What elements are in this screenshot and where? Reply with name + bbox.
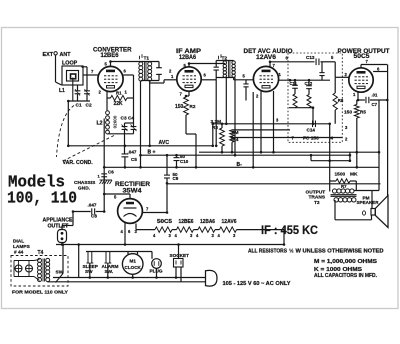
svg-text:1500: 1500	[335, 172, 346, 178]
svg-text:22K: 22K	[114, 101, 124, 107]
svg-text:C10: C10	[180, 159, 189, 164]
svg-text:C1: C1	[76, 102, 82, 108]
svg-text:12AV6: 12AV6	[256, 54, 277, 61]
svg-text:C7: C7	[372, 102, 378, 107]
svg-text:12BA6: 12BA6	[179, 54, 196, 61]
svg-text:150: 150	[344, 110, 352, 116]
svg-text:GND.: GND.	[78, 186, 90, 192]
svg-text:C14: C14	[307, 128, 316, 133]
svg-text:C13: C13	[306, 55, 315, 60]
svg-text:12BE6: 12BE6	[101, 52, 120, 59]
svg-text:FC 150: FC 150	[303, 136, 319, 142]
svg-text:150: 150	[175, 104, 184, 110]
svg-text:# 44: # 44	[14, 249, 24, 255]
svg-text:T1: T1	[144, 56, 150, 62]
svg-text:SPEAKER: SPEAKER	[357, 200, 380, 205]
svg-text:CHASSIS: CHASSIS	[74, 180, 96, 186]
svg-text:R2: R2	[190, 104, 196, 109]
svg-text:ALL RESISTORS: ALL RESISTORS	[248, 249, 287, 255]
svg-text:ALARM: ALARM	[102, 264, 119, 269]
svg-text:VAR. COND.: VAR. COND.	[63, 160, 94, 166]
svg-text:CLOCK: CLOCK	[125, 265, 142, 270]
svg-text:12BA6: 12BA6	[200, 219, 215, 225]
svg-text:.047: .047	[88, 203, 97, 208]
svg-text:M1: M1	[130, 259, 137, 264]
svg-text:TRANS: TRANS	[309, 195, 326, 201]
svg-text:.047: .047	[128, 150, 137, 155]
svg-text:LAMPS: LAMPS	[13, 244, 31, 250]
svg-text:SW.: SW.	[105, 269, 114, 274]
svg-text:½: ½	[289, 248, 294, 255]
svg-text:K = 1000 OHMS: K = 1000 OHMS	[314, 267, 363, 273]
svg-text:L2: L2	[97, 121, 103, 127]
svg-text:C8: C8	[91, 213, 97, 218]
svg-text:C5: C5	[131, 157, 137, 162]
svg-text:L1: L1	[59, 88, 65, 94]
svg-text:W UNLESS OTHERWISE NOTED: W UNLESS OTHERWISE NOTED	[296, 249, 384, 255]
svg-text:FOR MODEL 110 ONLY: FOR MODEL 110 ONLY	[12, 290, 69, 296]
svg-text:C6: C6	[108, 170, 114, 175]
svg-text:C9: C9	[173, 176, 179, 181]
svg-text:ALL CAPACITORS IN MFD.: ALL CAPACITORS IN MFD.	[314, 273, 378, 279]
svg-text:100, 110: 100, 110	[7, 189, 77, 208]
svg-text:02600: 02600	[113, 115, 118, 128]
svg-text:105 - 125 V 60 ~ AC ONLY: 105 - 125 V 60 ~ AC ONLY	[223, 281, 292, 287]
svg-text:12BE6: 12BE6	[179, 219, 194, 225]
svg-text:B +: B +	[148, 150, 156, 156]
svg-text:M = 1,000,000 OHMS: M = 1,000,000 OHMS	[314, 259, 378, 265]
svg-text:T3: T3	[314, 200, 320, 206]
svg-text:R8: R8	[338, 98, 344, 103]
svg-text:AVC: AVC	[159, 140, 170, 146]
svg-text:R5: R5	[360, 110, 366, 115]
svg-text:R1: R1	[116, 91, 122, 96]
svg-text:T4: T4	[38, 250, 44, 256]
svg-text:C12: C12	[305, 81, 313, 86]
svg-text:C11: C11	[290, 81, 298, 86]
svg-text:SOCKET: SOCKET	[170, 253, 190, 258]
svg-text:12AV6: 12AV6	[222, 219, 237, 225]
svg-text:OUTPUT: OUTPUT	[306, 190, 326, 196]
svg-text:C3 C4: C3 C4	[121, 116, 135, 122]
svg-text:MK: MK	[350, 172, 358, 178]
svg-text:50C5: 50C5	[157, 219, 172, 225]
svg-text:.01: .01	[372, 93, 378, 98]
svg-text:ANT: ANT	[60, 52, 72, 58]
svg-text:R7: R7	[341, 184, 347, 189]
svg-text:EXT: EXT	[43, 52, 54, 58]
svg-text:SW: SW	[85, 269, 93, 274]
svg-text:C2: C2	[86, 102, 92, 108]
svg-text:B-: B-	[237, 162, 243, 168]
svg-text:IF : 455 KC: IF : 455 KC	[261, 223, 318, 237]
svg-text:DIAL: DIAL	[13, 239, 24, 245]
svg-text:LOOP: LOOP	[62, 61, 78, 67]
svg-text:OUTLET: OUTLET	[48, 224, 70, 230]
